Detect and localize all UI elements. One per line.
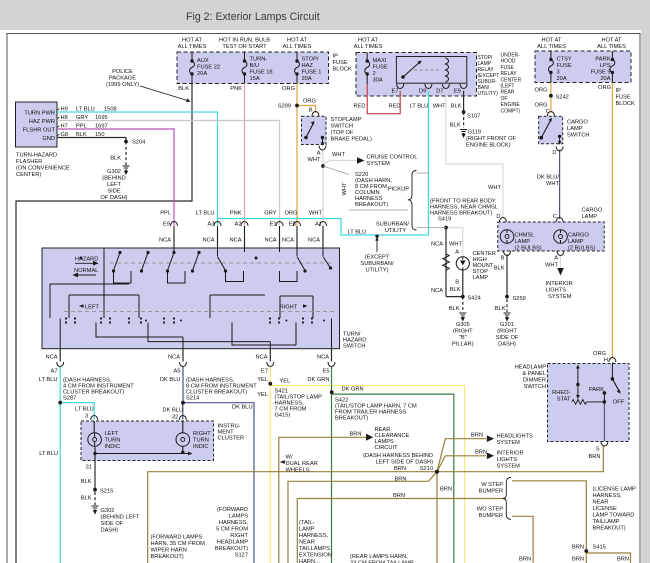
fuse F18 symbol: [242, 52, 247, 84]
svg-text:G8: G8: [61, 132, 69, 138]
brace pickup/suburban: [408, 171, 417, 231]
wire PNK fuse 18 to switch A2: [244, 84, 246, 226]
mid route wires: [50, 248, 313, 318]
title band: [0, 0, 650, 30]
svg-text:BREAKOUT): BREAKOUT): [215, 546, 248, 552]
svg-text:S424: S424: [468, 296, 481, 302]
svg-text:TURN PWR: TURN PWR: [24, 111, 55, 117]
svg-text:G305: G305: [456, 322, 470, 328]
svg-text:WHT: WHT: [309, 211, 322, 217]
svg-text:20A: 20A: [557, 76, 567, 82]
svg-text:WHEELS: WHEELS: [286, 468, 310, 474]
svg-text:FUSE: FUSE: [373, 65, 388, 71]
svg-text:G119: G119: [468, 130, 482, 136]
svg-text:PARK: PARK: [589, 387, 604, 393]
svg-text:NCA: NCA: [282, 238, 294, 244]
svg-text:BREAKOUT): BREAKOUT): [151, 554, 184, 560]
fuse F22 symbol: [190, 52, 195, 84]
svg-text:SWITCH: SWITCH: [331, 124, 353, 130]
svg-text:(FORWARD LAMPS: (FORWARD LAMPS: [151, 535, 203, 541]
svg-text:HARNESS,: HARNESS,: [299, 533, 328, 539]
svg-text:S287: S287: [63, 396, 76, 402]
svg-text:ALL TIMES: ALL TIMES: [354, 44, 383, 50]
wire BLK S107 to G119 dashed: [463, 112, 465, 128]
svg-text:SIDE OF: SIDE OF: [101, 521, 124, 527]
svg-text:S127: S127: [235, 553, 248, 559]
svg-text:COMPT): COMPT): [501, 108, 521, 114]
svg-text:LEFT SIDE OF DASH): LEFT SIDE OF DASH): [376, 460, 434, 466]
svg-text:(1999 ONLY): (1999 ONLY): [106, 82, 139, 88]
svg-text:E7: E7: [261, 369, 268, 375]
svg-text:PPL: PPL: [76, 124, 87, 130]
svg-text:1508: 1508: [104, 107, 117, 113]
wire DK BLU/WHT cargo switch D to cargo lamp C: [559, 150, 561, 220]
wire BRN S210 main horizontal to dimmer S pin: [148, 446, 604, 563]
svg-text:WHT: WHT: [332, 152, 345, 158]
svg-text:W STEP: W STEP: [481, 482, 503, 488]
upper linkage dashed: [110, 262, 332, 264]
svg-text:BRAKE PEDAL): BRAKE PEDAL): [331, 137, 373, 143]
svg-text:ALL TIMES: ALL TIMES: [537, 44, 566, 50]
svg-text:E7: E7: [392, 89, 399, 95]
wire BLK S215 to G302 dashed: [94, 492, 96, 505]
svg-text:S242: S242: [556, 95, 569, 101]
svg-text:LT BLU: LT BLU: [348, 230, 367, 236]
svg-text:BRN: BRN: [471, 433, 483, 439]
svg-text:(RIGHT: (RIGHT: [453, 329, 473, 335]
relay switch arm: [403, 61, 421, 77]
stoplamp switch arm: [306, 123, 314, 138]
svg-text:HEADLIGHTS: HEADLIGHTS: [497, 434, 534, 440]
svg-text:S214: S214: [186, 396, 199, 402]
lamp CARGO symbol: [554, 230, 568, 244]
wire ORG ctsy fuse to S242 to cargo switch C: [550, 83, 552, 114]
svg-text:HOOD: HOOD: [501, 59, 516, 65]
svg-text:20A: 20A: [197, 71, 207, 77]
wire BRN interior lights stub: [437, 456, 486, 472]
cargo switch arm: [541, 121, 550, 138]
svg-text:BLOCK: BLOCK: [333, 67, 352, 73]
ground G302 lower: [92, 506, 99, 510]
svg-text:Fig 2: Exterior Lamps Circuit: Fig 2: Exterior Lamps Circuit: [186, 11, 320, 23]
svg-text:(LEFT: (LEFT: [501, 84, 515, 90]
svg-text:YEL: YEL: [280, 379, 291, 385]
svg-text:B: B: [309, 108, 313, 114]
svg-text:PNK: PNK: [230, 211, 242, 217]
input stubs inside box: [174, 248, 323, 256]
right gray margin: [641, 30, 650, 563]
arrow interior lights system: [487, 453, 494, 460]
svg-text:BLK: BLK: [81, 479, 92, 485]
wire GRY flasher H8 to switch E1: [57, 121, 280, 226]
svg-text:UTILITY): UTILITY): [478, 91, 499, 97]
upper switch contacts row: [114, 253, 200, 271]
u-link wires below upper row: [114, 271, 298, 283]
arrow interior lights (cargo): [557, 268, 564, 276]
svg-text:SWITCH: SWITCH: [343, 344, 365, 350]
svg-text:WHT: WHT: [433, 104, 446, 110]
wire BLK from AUX fuse 22 / police package to bottom: [16, 84, 192, 563]
svg-text:A: A: [455, 250, 459, 256]
svg-text:BLOCK: BLOCK: [616, 101, 635, 107]
svg-text:BLK: BLK: [76, 132, 87, 138]
svg-text:WIPER HARN: WIPER HARN: [151, 548, 187, 554]
svg-text:IP: IP: [616, 88, 622, 94]
svg-text:ENGINE BLOCK): ENGINE BLOCK): [466, 143, 511, 149]
svg-text:LIGHTS: LIGHTS: [546, 288, 567, 294]
lamp left turn indicator: [93, 421, 96, 454]
svg-text:BLK: BLK: [450, 123, 461, 129]
dimmer S connector: [601, 442, 608, 447]
cargo switch D pin arrow: [559, 137, 561, 141]
svg-text:ORG: ORG: [535, 103, 548, 109]
svg-text:B: B: [501, 256, 505, 262]
svg-text:D7: D7: [436, 89, 443, 95]
svg-text:ALL TIMES: ALL TIMES: [283, 44, 312, 50]
svg-text:S415: S415: [593, 545, 606, 551]
svg-text:HOT AT: HOT AT: [601, 38, 622, 44]
svg-text:RIGHT: RIGHT: [193, 431, 211, 437]
svg-text:INTERIOR: INTERIOR: [497, 451, 524, 457]
arrow except suburban/utility: [376, 241, 378, 253]
svg-text:NORMAL: NORMAL: [74, 268, 98, 274]
wire BLK S424 to G305 dashed: [462, 297, 464, 312]
svg-text:D: D: [496, 214, 500, 220]
svg-text:ORG: ORG: [593, 351, 606, 357]
svg-text:NCA: NCA: [45, 355, 57, 361]
svg-text:SYSTEM: SYSTEM: [497, 464, 521, 470]
wire BRN S415 branch right: [586, 553, 630, 563]
svg-text:INDIC: INDIC: [193, 444, 208, 450]
svg-text:NEAR: NEAR: [593, 500, 609, 506]
node S210: [435, 470, 438, 473]
flasher pin ticks: [57, 109, 60, 137]
wire blk switch outputs stubs: [60, 349, 331, 362]
svg-text:(BEHIND: (BEHIND: [102, 176, 125, 182]
wire WHT branch to cruise control: [323, 161, 357, 165]
svg-text:BRN: BRN: [393, 493, 405, 499]
svg-text:B: B: [455, 280, 459, 286]
IP fuse block left (AUX / TURN-B/U / STOP-HAZ fuses): [177, 52, 329, 84]
svg-text:E1: E1: [270, 222, 277, 228]
svg-text:NCA: NCA: [308, 238, 320, 244]
svg-text:BRN: BRN: [588, 454, 600, 460]
svg-text:H9: H9: [61, 107, 68, 113]
svg-text:RHEO-: RHEO-: [552, 390, 570, 396]
svg-text:FUSE 22: FUSE 22: [197, 65, 220, 71]
ground G302 upper: [123, 166, 130, 170]
wire LT BLU S287 branch to cluster pin 3: [60, 403, 94, 420]
svg-text:SUBURBAN/: SUBURBAN/: [376, 222, 410, 228]
svg-text:NCA: NCA: [202, 238, 214, 244]
svg-text:TURN: TURN: [105, 438, 121, 444]
svg-text:PPL: PPL: [160, 211, 171, 217]
svg-text:ORG: ORG: [535, 88, 548, 94]
svg-text:SUBURBAN/: SUBURBAN/: [360, 261, 394, 267]
svg-text:A: A: [317, 151, 321, 157]
wire BRN dimmer S to park contact internals: [603, 402, 605, 441]
svg-text:LT BLU: LT BLU: [196, 211, 215, 217]
svg-text:AUX: AUX: [197, 58, 209, 64]
svg-text:"B": "B": [459, 335, 467, 341]
svg-text:LEFT: LEFT: [107, 182, 121, 188]
svg-text:CENTER): CENTER): [16, 172, 41, 178]
svg-text:ORG: ORG: [282, 86, 295, 92]
svg-text:ENGINE: ENGINE: [501, 102, 521, 108]
svg-text:BUMPER: BUMPER: [479, 489, 503, 495]
connector D chmsl lamp: [499, 218, 506, 223]
switch input connectors: [171, 222, 327, 227]
svg-text:S: S: [596, 447, 600, 453]
dimmer switch arm from H: [611, 363, 613, 379]
right arrow label line: [303, 304, 308, 308]
svg-text:(2 BULBS): (2 BULBS): [568, 246, 595, 252]
svg-text:LAMP: LAMP: [582, 214, 598, 220]
svg-text:HARN...: HARN...: [299, 559, 320, 563]
svg-text:BLK: BLK: [451, 104, 462, 110]
connector C cargo switch: [547, 112, 554, 117]
svg-text:DK GRN: DK GRN: [342, 387, 364, 393]
lamp right turn indicator: [182, 421, 184, 454]
leader suburban arm to S419: [417, 227, 447, 229]
resistor on NCA leg: [443, 254, 449, 270]
svg-text:(ON CONVENIENCE: (ON CONVENIENCE: [16, 166, 70, 172]
svg-text:NCA: NCA: [255, 355, 267, 361]
wire WHT S419 leg: [446, 228, 463, 257]
svg-text:FUSE 9: FUSE 9: [591, 70, 611, 76]
svg-text:DK BLU: DK BLU: [232, 405, 253, 411]
chmsl / cargo lamp box: [498, 222, 605, 251]
svg-text:YEL: YEL: [257, 377, 268, 383]
svg-text:FUSE 1: FUSE 1: [302, 70, 322, 76]
svg-text:LEFT: LEFT: [85, 305, 99, 311]
svg-text:TURN: TURN: [193, 438, 209, 444]
svg-text:HEADLAMP: HEADLAMP: [217, 540, 248, 546]
svg-text:(DASH HARNESS BEHIND: (DASH HARNESS BEHIND: [363, 453, 433, 459]
svg-text:PILLAR): PILLAR): [452, 342, 474, 348]
svg-text:LAMP TOWARD: LAMP TOWARD: [593, 513, 635, 519]
wire WHT relay D7 to chmsl lamp D: [446, 91, 503, 219]
svg-text:NCA: NCA: [317, 355, 329, 361]
svg-text:LAMP: LAMP: [567, 126, 583, 132]
svg-text:HARNESS,: HARNESS,: [593, 493, 622, 499]
node S204: [125, 140, 128, 143]
svg-text:UTILITY: UTILITY: [385, 228, 406, 234]
svg-text:S215: S215: [100, 489, 113, 495]
svg-text:E8: E8: [289, 222, 296, 228]
instrument cluster box: [81, 421, 214, 461]
svg-text:W/: W/: [286, 455, 293, 461]
svg-text:CENTER: CENTER: [501, 77, 522, 83]
wire WHT cargo lamp A to interior lights arrow: [560, 255, 562, 269]
wire BRN wire4 step bumper feed: [297, 499, 505, 563]
svg-text:G302: G302: [101, 508, 115, 514]
svg-text:RELAY: RELAY: [501, 71, 518, 77]
svg-text:(BEHIND LEFT: (BEHIND LEFT: [101, 515, 140, 521]
svg-text:FUSE: FUSE: [616, 95, 631, 101]
svg-text:NCA: NCA: [431, 288, 443, 294]
svg-text:30A: 30A: [373, 78, 383, 84]
svg-text:FUSE: FUSE: [501, 65, 515, 71]
turn-hazard flasher box: [16, 102, 58, 147]
svg-text:DK BLU/: DK BLU/: [537, 175, 560, 181]
wire BLK chmsl B to S424: [462, 270, 464, 297]
svg-text:LT BLU: LT BLU: [39, 377, 58, 383]
svg-text:RED: RED: [353, 104, 365, 110]
wire RED maxi fuse to relay E7: [367, 84, 400, 114]
svg-text:BUMPER: BUMPER: [479, 513, 503, 519]
svg-text:(RIGHT: (RIGHT: [497, 329, 517, 335]
cluster common wire with arrow: [95, 453, 188, 455]
svg-text:ALL TIMES: ALL TIMES: [178, 44, 207, 50]
svg-text:BRN: BRN: [572, 557, 584, 563]
svg-text:HAZ: HAZ: [302, 63, 314, 69]
dimmer rheostat indicator arrows: [577, 368, 579, 397]
svg-text:HOT AT: HOT AT: [182, 38, 203, 44]
svg-text:S107: S107: [467, 114, 480, 120]
svg-text:& PANEL: & PANEL: [522, 371, 546, 377]
leader pickup arm to relay wire: [417, 172, 429, 174]
svg-text:S419: S419: [438, 217, 451, 223]
node S422: [330, 391, 333, 394]
dimmer rheostat resistor: [572, 400, 605, 405]
svg-text:DK BLU: DK BLU: [163, 408, 184, 414]
svg-text:TEST OR START: TEST OR START: [222, 44, 267, 50]
hazard/normal arrows: [74, 262, 98, 277]
node S421: [269, 382, 272, 385]
svg-text:PACKAGE: PACKAGE: [109, 76, 136, 82]
svg-text:A3: A3: [208, 222, 215, 228]
svg-text:BREAKOUT): BREAKOUT): [355, 202, 388, 208]
svg-text:(RIGHT FRONT OF: (RIGHT FRONT OF: [466, 136, 517, 142]
S220 callout leader lines: [323, 166, 349, 175]
svg-text:H7: H7: [61, 124, 68, 130]
svg-text:D9: D9: [419, 89, 426, 95]
svg-text:NCA: NCA: [168, 355, 180, 361]
svg-text:CARGO: CARGO: [582, 208, 603, 214]
wire BRN wire3 to S210: [288, 472, 437, 563]
svg-text:BREAKOUT): BREAKOUT): [335, 416, 368, 422]
dimmer H connector: [609, 358, 616, 363]
svg-text:TAILLAMPS: TAILLAMPS: [299, 546, 330, 552]
svg-text:E9: E9: [454, 89, 461, 95]
cluster pin 31 exit: [94, 454, 96, 461]
svg-text:CRUISE CONTROL: CRUISE CONTROL: [367, 155, 418, 161]
svg-text:CHMSL: CHMSL: [515, 233, 535, 239]
svg-text:1697: 1697: [95, 124, 108, 130]
node S424: [461, 295, 464, 298]
svg-text:LICENSE: LICENSE: [593, 506, 618, 512]
svg-text:A2: A2: [235, 222, 242, 228]
node S419: [445, 226, 448, 229]
svg-text:2: 2: [373, 71, 376, 77]
svg-text:LT BLU: LT BLU: [410, 104, 429, 110]
svg-text:E9: E9: [163, 222, 170, 228]
left arrow label line: [79, 304, 84, 308]
wire BLK S259 to G201 dashed: [506, 299, 508, 312]
wire LT BLU A7 to S287 to bottom: [59, 366, 61, 563]
wire BLK cluster pin 31 to S215: [94, 461, 96, 490]
svg-text:A1: A1: [315, 222, 322, 228]
node S242: [550, 94, 553, 97]
connector D cargo switch: [556, 147, 563, 152]
svg-text:5 CM FROM: 5 CM FROM: [216, 527, 248, 533]
ground G201: [504, 313, 511, 317]
svg-text:STAT: STAT: [557, 397, 571, 403]
wire BRN rear clearance lamps feed: [279, 437, 366, 563]
svg-text:ALL TIMES: ALL TIMES: [597, 44, 626, 50]
svg-text:TURN-HAZARD: TURN-HAZARD: [16, 153, 57, 159]
svg-text:IP: IP: [333, 54, 339, 60]
lower route wires to outputs: [60, 319, 331, 349]
svg-text:BRN: BRN: [394, 477, 406, 483]
wire BRN wo step bumper: [512, 516, 533, 563]
svg-text:NCA: NCA: [159, 238, 171, 244]
wire BLK flasher G8 to S204: [57, 138, 126, 142]
maxi fuse 2 symbol: [365, 53, 370, 85]
svg-text:HEADLAMP: HEADLAMP: [515, 365, 546, 371]
svg-text:LAMP: LAMP: [515, 239, 531, 245]
svg-text:SYSTEM: SYSTEM: [367, 161, 391, 167]
node S415: [585, 550, 588, 553]
svg-text:BLK: BLK: [110, 156, 121, 162]
ground G119: [460, 130, 467, 134]
svg-text:(2 BULBS): (2 BULBS): [515, 246, 542, 252]
svg-text:B/U: B/U: [250, 63, 259, 69]
wire BLK chmsl lamp B to S259: [506, 255, 508, 297]
brace step bumper: [503, 478, 511, 520]
svg-text:REAR: REAR: [501, 90, 515, 96]
wire BLK relay E9 to S107: [463, 91, 465, 112]
svg-text:G415): G415): [275, 413, 291, 419]
svg-text:C: C: [546, 109, 550, 115]
svg-text:EXTENSION: EXTENSION: [299, 553, 332, 559]
svg-text:OF DASH): OF DASH): [100, 195, 127, 201]
connector B stoplamp switch: [312, 112, 319, 117]
lower contact dots rows: [65, 317, 325, 323]
arrow rear clearance lamps: [366, 434, 373, 441]
wire BRN headlights stub: [437, 439, 486, 472]
svg-text:GND: GND: [42, 136, 55, 142]
svg-text:LT BLU: LT BLU: [75, 407, 94, 413]
svg-text:S299: S299: [278, 104, 291, 110]
svg-text:HOT AT: HOT AT: [287, 38, 308, 44]
arrow headlights system: [487, 435, 494, 442]
svg-text:NCA: NCA: [431, 242, 443, 248]
wire PPL flasher H7 to switch E9: [57, 129, 174, 226]
svg-text:OFF: OFF: [613, 400, 625, 406]
svg-text:1695: 1695: [95, 115, 108, 121]
svg-text:32: 32: [172, 415, 178, 421]
svg-text:WO STEP: WO STEP: [477, 507, 503, 513]
wire LT BLU relay D9 to A3 vertical: [218, 91, 429, 235]
svg-text:RED: RED: [388, 104, 400, 110]
svg-text:BLK: BLK: [81, 496, 92, 502]
svg-text:SYSTEM: SYSTEM: [497, 440, 521, 446]
svg-text:(TAIL-: (TAIL-: [299, 520, 314, 526]
stop lamp relay U1 inner box: [396, 57, 466, 84]
fuse F1 symbol: [295, 52, 300, 84]
wire YEL S421 branch right: [270, 386, 464, 563]
wire BRN w step bumper to S415: [512, 481, 586, 563]
ground G305: [459, 313, 466, 317]
wire NCA resistor leg S419 to S424: [446, 228, 463, 297]
svg-text:ORG: ORG: [303, 99, 316, 105]
wire blk switch inputs stubs: [174, 231, 323, 248]
relay pin connectors E7 D9 D7 E9: [397, 84, 467, 89]
svg-text:WHT: WHT: [308, 157, 321, 163]
svg-text:NCA: NCA: [264, 238, 276, 244]
